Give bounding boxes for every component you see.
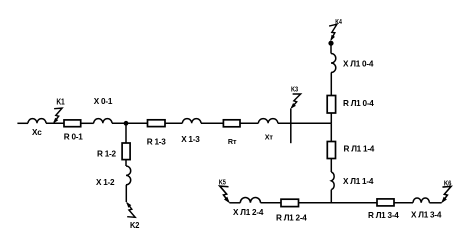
wire Xt to branch junction <box>278 122 332 124</box>
resistor R 1-2 <box>122 143 130 160</box>
inductor X 1-3 <box>182 119 201 124</box>
wire R 1-3 to X 1-3 <box>165 122 182 124</box>
wire R L1 0-4 to main line <box>330 113 332 123</box>
inductor X 1-2 <box>126 166 131 185</box>
wire R L1 3-4 to X L1 3-4 <box>394 202 413 204</box>
resistor R L1 2-4 <box>281 199 299 206</box>
inductor Xc <box>28 119 46 124</box>
wire main line left segment <box>17 122 28 124</box>
svg-text:X Л1 3-4: X Л1 3-4 <box>411 210 442 219</box>
svg-text:X 1-2: X 1-2 <box>96 178 115 187</box>
svg-text:K2: K2 <box>130 220 140 230</box>
resistor R 0-1 <box>64 120 81 127</box>
short-circuit K4 <box>328 24 339 41</box>
inductor X L1 0-4 <box>331 54 336 73</box>
svg-text:K3: K3 <box>291 85 298 94</box>
svg-text:K6: K6 <box>444 178 451 187</box>
svg-text:Xc: Xc <box>32 128 42 137</box>
node K3 tap vertical line <box>290 109 292 144</box>
wire X L1 0-4 to R L1 0-4 <box>330 73 332 96</box>
resistor R L1 0-4 <box>327 96 335 114</box>
wire X L1 3-4 to K6 <box>429 202 441 204</box>
svg-text:R Л1 2-4: R Л1 2-4 <box>276 213 307 222</box>
resistor R L1 1-4 <box>327 142 335 159</box>
inductor X 0-1 <box>94 119 112 124</box>
wire branch node to R 1-2 <box>125 123 127 143</box>
wire Rt to Xt <box>240 122 258 124</box>
wire X L1 2-4 to R L1 2-4 <box>261 202 282 204</box>
node junction dot <box>124 121 129 126</box>
svg-text:Xт: Xт <box>265 132 274 141</box>
wire main line to R L1 1-4 <box>330 123 332 141</box>
wire R L1 1-4 to X L1 1-4 <box>330 159 332 173</box>
wire R 1-2 to X 1-2 <box>125 160 127 166</box>
wire X L1 1-4 to bottom line <box>330 190 332 203</box>
wire X 1-2 to K2 <box>125 185 127 202</box>
resistor R L1 3-4 <box>377 199 394 206</box>
svg-text:X 0-1: X 0-1 <box>94 97 113 106</box>
svg-text:X Л1 2-4: X Л1 2-4 <box>233 208 264 217</box>
svg-text:R Л1 0-4: R Л1 0-4 <box>343 99 374 108</box>
short-circuit K2 <box>126 202 135 218</box>
inductor X L1 1-4 <box>331 172 334 190</box>
short-circuit K3 <box>290 93 300 109</box>
wire bottom line K5 to X L1 2-4 <box>229 202 240 204</box>
inductor X L1 2-4 <box>240 198 260 203</box>
short-circuit K6 <box>441 186 451 203</box>
svg-text:R Л1 3-4: R Л1 3-4 <box>368 211 399 220</box>
svg-text:K5: K5 <box>219 177 226 186</box>
short-circuit K1 <box>53 108 62 124</box>
short-circuit K5 <box>220 186 230 203</box>
wire R L1 2-4 to R L1 3-4 <box>299 202 378 204</box>
resistor R 1-3 <box>148 120 166 127</box>
svg-text:Rт: Rт <box>228 137 237 146</box>
svg-text:X 1-3: X 1-3 <box>181 135 200 144</box>
svg-text:X Л1 0-4: X Л1 0-4 <box>343 60 374 69</box>
inductor Xt <box>258 119 277 124</box>
svg-text:R 1-2: R 1-2 <box>97 149 116 158</box>
svg-text:X Л1 1-4: X Л1 1-4 <box>343 177 374 186</box>
inductor X L1 3-4 <box>413 198 429 203</box>
svg-text:R 1-3: R 1-3 <box>147 138 166 147</box>
resistor Rt <box>223 120 240 127</box>
wire R 0-1 to X 0-1 <box>81 122 94 124</box>
svg-text:R 0-1: R 0-1 <box>64 132 83 141</box>
svg-text:K1: K1 <box>56 97 65 107</box>
node top dot of line branch <box>328 41 333 46</box>
wire X 0-1 to R 1-3 through node <box>112 122 148 124</box>
wire Xc to R 0-1 <box>46 122 64 124</box>
wire dot to X L1 0-4 <box>330 43 332 53</box>
wire X 1-3 to Rt <box>201 122 223 124</box>
svg-text:K4: K4 <box>335 17 342 26</box>
svg-text:R Л1 1-4: R Л1 1-4 <box>344 144 375 153</box>
